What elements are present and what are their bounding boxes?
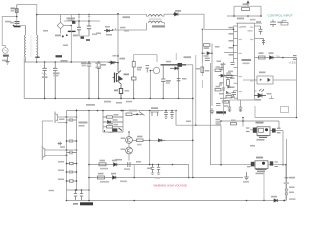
diode D1 — [175, 13, 205, 16]
thermistor dark on line — [72, 21, 75, 24]
transformer T1 primary winding — [24, 26, 25, 58]
capacitor C4 — [53, 62, 57, 98]
junction y16 — [233, 15, 235, 17]
wire q1 gate from bus — [134, 55, 143, 60]
wire lower link y30 — [112, 29, 147, 31]
left output vertical — [88, 111, 90, 201]
label above row1 — [115, 159, 122, 161]
wire x255 stub — [254, 106, 256, 118]
wire Q2 top — [128, 132, 130, 137]
net label above lamp bus — [86, 104, 95, 106]
ladder rung D13 — [103, 121, 123, 124]
label R6 — [137, 67, 142, 69]
wire left loop x24 — [23, 58, 25, 99]
base resistor R9 — [132, 139, 149, 142]
resistor R2 top — [234, 6, 261, 10]
labels under ground bus — [104, 101, 132, 104]
output filter caps bottom left — [74, 190, 83, 201]
label C6 — [81, 63, 87, 65]
rung labels left of lamp bus — [58, 119, 65, 181]
junction at bus — [78, 14, 80, 16]
resistor near top right edge — [281, 23, 288, 26]
cap on aux right rail — [177, 79, 181, 81]
junction bias — [202, 53, 203, 54]
wire AC to fuse — [2, 17, 17, 48]
junction — [296, 117, 298, 119]
row2 wire y177.5 — [89, 177, 243, 179]
label sec gnd — [243, 181, 249, 183]
rung bottom wire — [103, 131, 123, 133]
TVS diode D2 — [109, 61, 119, 64]
lamp connector plate 1 — [55, 112, 77, 124]
label U2 — [259, 72, 266, 74]
wire LED+ row y57.5 — [255, 57, 293, 59]
ground under AC source — [5, 57, 9, 64]
label bridge text — [67, 18, 76, 20]
label 230VAC dark — [3, 55, 9, 57]
wire fb corner x204 — [201, 63, 203, 88]
small parts grid — [220, 88, 229, 103]
label near top caps — [61, 60, 68, 62]
lamp cap Cb — [67, 139, 77, 143]
svg-text:CONTROL INPUT: CONTROL INPUT — [268, 13, 293, 17]
capacitor C5 right of U1 — [259, 26, 263, 35]
wire bridge negative down — [70, 26, 72, 63]
value labels scattered — [43, 30, 295, 193]
Q3 internals — [128, 148, 132, 153]
varistor RV1 — [15, 22, 20, 24]
snubber capacitor C6 — [87, 62, 91, 98]
common-mode choke L2 — [147, 14, 165, 30]
component end of bus — [151, 112, 160, 116]
lamp cap Cc — [67, 151, 77, 155]
ladder labels — [216, 66, 232, 102]
capacitor C3 — [42, 62, 47, 98]
zener D6 — [205, 58, 210, 60]
wire drain vertical x118 — [117, 14, 119, 62]
wire y23 — [236, 22, 262, 24]
lamp cap Ca — [67, 118, 77, 122]
wire feedback staircase x176 — [176, 111, 221, 126]
long vertical x195.8 — [195, 55, 197, 125]
wire staircase drop x221 — [220, 125, 222, 165]
wire lamp bus to bottom — [66, 190, 68, 201]
row1 cap C9 — [128, 162, 130, 167]
wire cluster B out — [278, 164, 286, 166]
resistor R12 below bias — [201, 67, 204, 73]
AC source V1 — [3, 48, 9, 54]
row1 resistor R10 — [99, 163, 106, 166]
junctions top bus — [88, 110, 90, 112]
wire primary bottom y62 — [24, 61, 116, 63]
bridge rectifier BR1 — [57, 15, 71, 34]
row1 diode D8 — [114, 163, 117, 166]
diode D7 — [219, 74, 235, 77]
ladder rung R14 — [103, 126, 123, 128]
label RV1 — [10, 22, 13, 24]
junctions bottom bus — [88, 200, 90, 202]
feedback vertical 2 — [211, 63, 252, 165]
diode D10 on mid wire — [158, 139, 165, 142]
IC inner label top — [241, 26, 247, 28]
ladder rails mid — [103, 111, 123, 133]
lamp connector plate 2 — [42, 145, 76, 160]
label left of varistor — [5, 21, 11, 23]
bus top extension to x176 — [163, 110, 176, 112]
lamp bottom wire — [67, 189, 90, 191]
wire opto left — [243, 79, 257, 81]
small mark left bottom — [49, 190, 55, 191]
label C4 — [53, 73, 60, 75]
bulk capacitor C1 — [77, 21, 81, 36]
bulk capacitor C2 — [87, 21, 92, 36]
junction bottom right — [283, 200, 285, 202]
ladder rung R13 — [103, 116, 123, 118]
junction C2 top — [88, 20, 90, 22]
transistor Q2 — [126, 137, 133, 144]
ground secondary — [244, 172, 249, 180]
pin name marks inside IC — [239, 27, 254, 93]
terminal LED plus — [293, 56, 297, 60]
dark cluster mid — [105, 128, 123, 132]
MOSFET Q1 — [113, 63, 123, 88]
part on horn wires — [58, 142, 63, 145]
label U1 — [242, 59, 252, 61]
label C1 C2 — [73, 35, 78, 37]
svg-text:WARNING HIGH VOLTAGE: WARNING HIGH VOLTAGE — [154, 184, 188, 188]
junction C1 top — [78, 20, 80, 22]
pin junctions — [233, 29, 235, 31]
label D2 — [120, 58, 126, 60]
transformer polarity mark — [35, 57, 39, 58]
label SMD 747 — [152, 25, 165, 27]
wire half-bridge mid y140 — [150, 139, 193, 141]
label D1 — [175, 10, 181, 12]
wire snubber top link — [143, 55, 157, 62]
fuse F1 — [15, 5, 18, 17]
snubber resistor R4 — [97, 62, 100, 98]
row2 resistor R11 — [98, 176, 105, 179]
right bus mid — [149, 111, 151, 165]
junction y62 — [36, 61, 38, 63]
part on bottom bus — [274, 199, 278, 202]
output bus top y110.5 — [89, 110, 163, 112]
wire Q2 Q3 — [128, 143, 130, 160]
dark block aux bar end — [178, 63, 183, 67]
label C7 — [166, 80, 171, 82]
label aux — [184, 56, 192, 58]
lamp bus right — [76, 109, 78, 190]
Q2 internals — [128, 138, 132, 143]
label pin text — [237, 18, 244, 20]
row1 end vertical — [188, 165, 190, 178]
parts row top — [126, 112, 145, 116]
aux cap C7 — [161, 65, 165, 98]
inductor L1 — [14, 26, 21, 28]
label right parts — [278, 22, 284, 24]
wire LED stub — [269, 96, 274, 99]
label D11 — [255, 99, 261, 101]
dark marks under caps — [81, 37, 85, 39]
wire filter node — [14, 25, 26, 27]
capacitor C8 — [232, 91, 237, 97]
cluster B regulator U4 — [247, 157, 278, 175]
svg-text:+LED: +LED — [289, 60, 296, 64]
wire aux right vertical — [178, 65, 180, 98]
junction bus at transformer — [36, 14, 38, 16]
label parts row — [129, 110, 137, 112]
label R4 — [101, 64, 106, 66]
junction main bus x118 — [117, 13, 119, 15]
junction led row — [282, 57, 284, 59]
wire bus extension — [118, 14, 147, 16]
aux thick net — [161, 64, 187, 66]
label R2 — [243, 3, 249, 5]
aux diode D4 — [170, 67, 178, 70]
label C5 — [256, 21, 261, 23]
primary ground bus y98.4 — [24, 97, 193, 99]
label R5 — [114, 90, 118, 92]
U1 pins right — [255, 26, 261, 91]
opto coupler U2 — [257, 76, 273, 84]
LED indicator D11 — [254, 89, 266, 98]
lamp plate 1 junctions — [66, 116, 68, 118]
small box right — [281, 107, 289, 113]
wire mid drop x193 — [192, 65, 194, 178]
junctions ground bus — [44, 98, 46, 100]
IC U1 box — [238, 23, 255, 100]
cluster A regulator U3 — [220, 117, 283, 141]
sense resistor R5 — [119, 89, 122, 99]
main DC bus wire y14.5 — [37, 14, 118, 16]
U1 pins left — [234, 26, 238, 98]
labels pin area — [219, 69, 224, 71]
label C3 — [42, 76, 48, 78]
secondary rail right — [296, 58, 298, 118]
junction aux — [178, 68, 180, 70]
wire y117.5 — [255, 117, 297, 119]
wire vcc row y16 — [227, 15, 262, 17]
wire R2 sides — [234, 6, 261, 16]
small parts right of Q1 — [146, 66, 150, 73]
wire cluster B to bottom bus — [263, 169, 265, 201]
parts below ladder — [216, 122, 237, 125]
labels row2 — [98, 173, 104, 175]
bottom bus y200.5 — [67, 200, 287, 202]
junctions row1 — [88, 164, 90, 166]
labels row1 — [100, 160, 106, 162]
diode D3 led — [270, 56, 274, 59]
label Q1 — [124, 74, 130, 76]
label bus — [123, 16, 131, 18]
filter caps at bus end — [164, 111, 173, 119]
wire to controller — [204, 14, 234, 29]
small parts top right — [270, 20, 276, 28]
transformer core — [31, 35, 32, 57]
wire T1 primary bottom stub — [26, 57, 37, 62]
arrow marks — [276, 56, 280, 58]
wire bridge node y21 — [64, 20, 100, 22]
zener stack right — [261, 39, 266, 46]
aux winding circle — [153, 67, 159, 73]
resistor R3 led — [259, 56, 266, 59]
wire aux top vertical — [175, 53, 177, 60]
U1 left pin bus — [233, 26, 235, 62]
gate drive wire — [224, 52, 234, 54]
label GND bold — [216, 111, 226, 113]
row2 diode D9 — [113, 176, 116, 179]
junction drain — [117, 62, 119, 64]
label R9 — [137, 136, 143, 138]
link ticks — [79, 15, 89, 22]
label lamp — [79, 122, 88, 124]
label BR1 bold — [68, 31, 76, 32]
transistor Q3 — [126, 147, 133, 154]
wire cluster A to right rail — [283, 131, 286, 201]
lamp plate 2 junctions — [66, 149, 68, 151]
label T1 — [56, 55, 63, 57]
resistor R8 — [227, 77, 230, 88]
caps with grounds under pins — [228, 106, 242, 112]
label R3 — [259, 52, 264, 54]
junction D1 — [173, 13, 175, 15]
ladder resistors — [215, 69, 232, 105]
diode D5 — [202, 52, 212, 55]
extra labels near snubber — [96, 55, 117, 68]
label bias — [204, 47, 210, 49]
feedback vertical long — [211, 63, 213, 106]
transformer T1 secondary winding — [37, 15, 38, 58]
lamp series connector wire — [42, 121, 53, 145]
row1 wire y164.5 — [89, 164, 189, 166]
wire aux left — [150, 70, 153, 72]
lamp bus left — [66, 111, 68, 191]
wire fuse top to rail — [17, 5, 37, 15]
U1 bottom pins — [230, 100, 241, 106]
row link vertical — [133, 165, 135, 178]
controller supply arrow — [247, 1, 250, 6]
wire x18 vertical — [16, 17, 18, 26]
gate resistor R6 — [132, 60, 137, 98]
label F1 — [11, 8, 16, 10]
caps to ground under row1 — [151, 165, 160, 175]
inductor L3 dark — [80, 202, 93, 205]
junction fuse line — [16, 16, 18, 18]
wire caps bottom — [79, 35, 89, 37]
wire opto right — [273, 79, 297, 81]
junction bridge out — [71, 25, 73, 27]
ladder rail x223.5 — [223, 62, 225, 115]
junction R4 — [98, 61, 100, 63]
junctions row2 — [88, 177, 90, 179]
diode D12 near bus — [104, 29, 113, 32]
opto bias network rails — [202, 29, 212, 63]
ground primary GND — [210, 108, 214, 114]
labels J2 — [289, 177, 295, 179]
junction filter — [13, 25, 15, 27]
resistor R7 — [204, 44, 210, 47]
output connector J2 — [285, 139, 289, 201]
pin labels left — [229, 27, 234, 56]
opto internals — [260, 79, 262, 81]
label L3 — [73, 203, 78, 205]
ladder parts between buses — [67, 162, 77, 182]
extra pin-area parts — [219, 63, 235, 95]
junction C6 — [88, 61, 90, 63]
label under bridge — [55, 35, 61, 37]
lamp top wire — [67, 110, 90, 112]
label on bus — [271, 196, 277, 198]
